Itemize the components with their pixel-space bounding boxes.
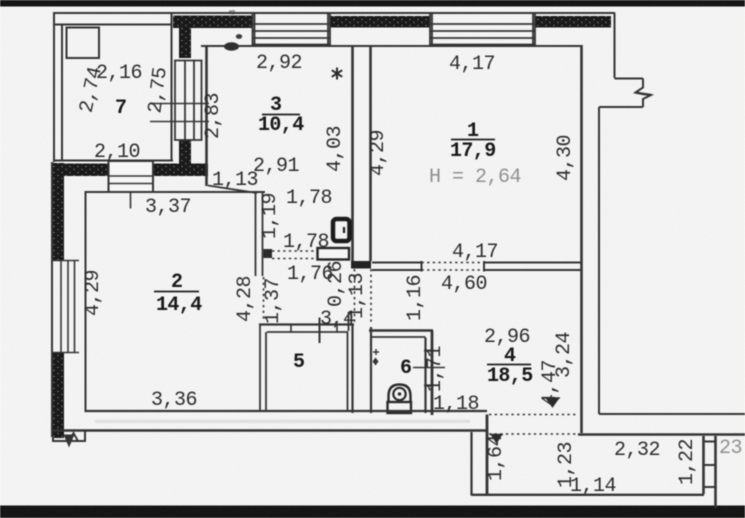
top wall hatch: between windows: [330, 16, 430, 28]
room 5 door tick: [319, 318, 321, 344]
lower strip right ladder rails: [702, 436, 705, 494]
room 6 right wall inner: [424, 338, 426, 414]
left outer wall: room 2 section: [51, 162, 53, 437]
tick after 3,4: [348, 312, 350, 331]
protrusion bottom edge: [599, 106, 643, 108]
protrusion top edge: [615, 78, 644, 80]
lower strip left edge outer: [470, 432, 472, 496]
spine between rooms 5 and 6 right: [370, 327, 372, 413]
room 3 window: [252, 14, 330, 46]
top wall hatch: right of room1 window: [535, 16, 611, 28]
toilet tank: [388, 402, 412, 413]
lower strip top line: [578, 433, 745, 436]
room1/room4 dividing wall left segment: [372, 261, 422, 272]
spine wall left line (room3 right wall): [351, 45, 354, 261]
room 5 wall jamb marks: [290, 325, 292, 333]
wall break zigzag on protrusion: [636, 93, 652, 96]
room 5 left wall: [259, 325, 261, 412]
left wall window: [51, 261, 79, 353]
corner notch zigzag: [69, 433, 78, 441]
room 2 ceiling line: [85, 191, 266, 193]
room1/room4 dividing wall right segment: [484, 261, 581, 272]
room 2 right wall upper: [255, 192, 257, 276]
threshold bar in hall: [318, 248, 350, 260]
bottom-left corner block: [53, 431, 85, 442]
stove black square in room 3: [333, 219, 350, 241]
room 6 top wall outer: [369, 329, 433, 331]
toilet flush circle: [393, 388, 405, 400]
room 6 top wall inner: [372, 336, 426, 338]
room 7 right wall line: [171, 13, 173, 161]
door swing crosses in room 6: [373, 349, 379, 355]
room 5 top wall inner: [267, 331, 348, 333]
left wall hatch lower: [53, 353, 64, 438]
room 3 fraction line: [262, 114, 300, 116]
spine wall right line (room1 left wall): [369, 45, 372, 261]
room 7 left outer wall: [53, 12, 55, 162]
top scan bar: [0, 0, 745, 7]
interior ceiling line rooms 3 and 1: [201, 45, 582, 47]
leader line from 6 label: [413, 367, 445, 369]
closet in room 7: [67, 28, 100, 59]
stove inner tick: [343, 227, 345, 233]
entry arrow room 4: [545, 398, 560, 407]
room 5 right wall: [347, 332, 349, 411]
dimension tick lines across shaft: [151, 103, 209, 105]
room 3 left wall: [205, 46, 208, 186]
toilet bowl in room 6: [389, 385, 411, 404]
apartment bottom outer wall line: [52, 429, 488, 431]
spine between rooms 5 and 6 left: [351, 325, 353, 414]
shaft wall hatch vertical lower: [179, 140, 191, 166]
room 3 door leaf diagonal: [208, 186, 257, 194]
entry arrow lower strip: [490, 435, 503, 443]
room 1 window: [430, 14, 535, 46]
star mark in room 3: [332, 68, 342, 80]
notch on room 2 wall: [264, 249, 273, 258]
room 4 fraction line: [487, 364, 531, 366]
neighbour bottom line: [599, 413, 745, 415]
outer top wall line: [54, 12, 615, 14]
room 2 interior left wall line: [85, 191, 87, 411]
corner arrow: [64, 435, 75, 448]
interior right wall (rooms 1 and 4): [578, 45, 745, 435]
spine dotted opening right: [370, 269, 372, 325]
lower strip ladder rungs: [704, 441, 717, 443]
room 1 fraction line: [451, 139, 495, 141]
hall dotted opening to room 2: [263, 277, 265, 321]
right outer wall main segment: [598, 107, 600, 414]
room 7 bottom wall line: [53, 160, 173, 162]
lower strip left edge inner: [486, 415, 489, 495]
protrusion right edge with break: [636, 79, 652, 108]
room 4 bottom dotted boundary: [489, 414, 576, 416]
left wall hatch upper: [53, 163, 64, 261]
room 6 right wall outer: [431, 331, 434, 416]
vent ellipse on room 3 ceiling: [224, 42, 239, 50]
room7/room2 dividing wall hatch left: [56, 164, 109, 177]
room 7 top inner wall line: [54, 24, 172, 26]
right outer wall top segment: [599, 13, 745, 414]
apartment bottom floor line: [85, 410, 488, 412]
room1/room4 dividing wall dotted opening: [422, 262, 485, 264]
hall dotted lines horizontal pair: [272, 250, 318, 252]
top wall hatch: shaft + room3 left segment: [173, 16, 252, 29]
room 7 left inner wall line: [61, 25, 63, 160]
spine wall junction block: [351, 261, 371, 269]
room 2 fraction line: [154, 291, 199, 293]
lower strip bottom line: [472, 494, 705, 496]
room 5 top wall outer: [259, 323, 354, 325]
shaft ladder between room 7 and room 3: [174, 61, 203, 141]
room7/room2 dividing wall hatch right: [153, 164, 208, 177]
room 6 wall ticks: [424, 350, 434, 352]
bottom scan bar: [0, 506, 745, 518]
door room7 to room2: [109, 161, 154, 209]
shaft wall hatch vertical upper: [179, 16, 191, 58]
grey streak in bottom wall cavity: [95, 420, 470, 424]
spine dotted opening left: [354, 269, 356, 325]
